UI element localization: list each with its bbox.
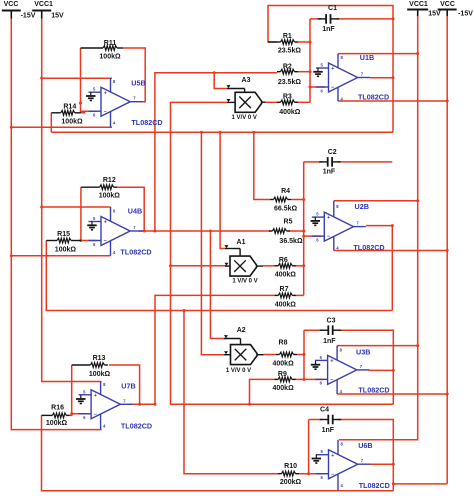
svg-text:36.5kΩ: 36.5kΩ bbox=[279, 238, 303, 245]
svg-text:6: 6 bbox=[321, 475, 324, 480]
capacitor C2 bbox=[319, 149, 340, 176]
svg-text:8: 8 bbox=[113, 209, 116, 214]
svg-text:7: 7 bbox=[360, 364, 363, 369]
wire R7 right lead bbox=[295, 294, 304, 296]
svg-text:8: 8 bbox=[341, 55, 344, 60]
wire R4 left lead from U1B line bbox=[254, 132, 270, 199]
op-amp U4B bbox=[89, 206, 152, 256]
wire U7B output bbox=[129, 403, 156, 405]
svg-text:TL082CD: TL082CD bbox=[131, 118, 162, 127]
svg-text:100kΩ: 100kΩ bbox=[61, 119, 83, 126]
svg-text:R13: R13 bbox=[93, 355, 106, 362]
resistor R2 bbox=[277, 64, 301, 87]
resistor R1 bbox=[268, 33, 301, 54]
resistor R7 bbox=[275, 286, 297, 309]
svg-text:R5: R5 bbox=[284, 219, 293, 226]
power symbol VCC1 (15V) top-left bbox=[32, 1, 64, 19]
wire R6 line from U3B rail to A1 bbox=[171, 265, 227, 267]
wire A2 y-input from U4B output bbox=[210, 231, 226, 339]
resistor R15 bbox=[46, 231, 81, 253]
svg-text:R10: R10 bbox=[284, 463, 297, 470]
svg-text:C3: C3 bbox=[327, 317, 336, 324]
resistor R10 bbox=[278, 463, 301, 486]
capacitor C3 bbox=[320, 317, 341, 345]
wire A2 x-input from U1B line bbox=[201, 132, 226, 354]
svg-text:400kΩ: 400kΩ bbox=[279, 109, 301, 116]
svg-text:U4B: U4B bbox=[128, 206, 142, 215]
svg-text:TL082CD: TL082CD bbox=[120, 248, 151, 257]
svg-text:−: − bbox=[331, 472, 335, 478]
wire C3 row left bbox=[304, 329, 323, 331]
svg-text:5: 5 bbox=[316, 212, 319, 217]
svg-text:400kΩ: 400kΩ bbox=[275, 272, 297, 279]
svg-text:R2: R2 bbox=[283, 64, 292, 71]
svg-text:R9: R9 bbox=[278, 371, 287, 378]
svg-text:1nF: 1nF bbox=[323, 338, 336, 345]
svg-text:8: 8 bbox=[113, 79, 116, 84]
svg-text:100kΩ: 100kΩ bbox=[99, 53, 121, 60]
svg-text:4: 4 bbox=[113, 121, 116, 126]
svg-text:400kΩ: 400kΩ bbox=[275, 302, 297, 309]
wire R14 right lead jog bbox=[81, 111, 85, 113]
svg-text:TL082CD: TL082CD bbox=[358, 386, 389, 395]
wire U1B output distribution line (horizontal) bbox=[51, 131, 393, 134]
svg-text:VCC1: VCC1 bbox=[34, 1, 53, 8]
svg-text:15V: 15V bbox=[51, 12, 64, 19]
svg-text:U3B: U3B bbox=[356, 348, 370, 357]
op-amp U1B bbox=[316, 53, 389, 101]
multiplier A2 input stubs and output lead bbox=[224, 335, 264, 355]
wire U3B input bus bbox=[303, 330, 306, 381]
svg-text:R8: R8 bbox=[279, 340, 288, 347]
svg-text:6: 6 bbox=[316, 237, 319, 242]
wire R11 left lead to U5B inverting input bbox=[79, 48, 97, 111]
wire R6 right lead bbox=[295, 265, 304, 267]
svg-text:1 V/V 0 V: 1 V/V 0 V bbox=[226, 368, 251, 374]
svg-text:+: + bbox=[331, 453, 335, 459]
svg-text:6: 6 bbox=[93, 242, 96, 247]
wire U6B output bbox=[370, 463, 393, 465]
power symbol VCC1 (15V) top-right bbox=[407, 1, 441, 18]
svg-text:A3: A3 bbox=[242, 77, 251, 84]
wire C1 left lead bbox=[310, 18, 322, 20]
wire R7 line to U7B output bbox=[154, 295, 277, 405]
wire C4 right lead down to U6B output bbox=[337, 420, 393, 465]
wire R3 right lead to bus bbox=[298, 101, 310, 103]
wire C4 row left bbox=[309, 419, 323, 421]
svg-text:8: 8 bbox=[340, 347, 343, 352]
resistor R3 bbox=[277, 94, 301, 116]
wire C3 right lead down to U3B output and A-rail bbox=[337, 330, 394, 404]
svg-text:1nF: 1nF bbox=[323, 169, 336, 176]
ground at U4B non-inverting input bbox=[87, 222, 96, 230]
capacitor C1 bbox=[318, 5, 339, 33]
wire R1 right lead to bus bbox=[298, 41, 310, 43]
wire U3B pin4 to -15V rail bbox=[337, 393, 449, 396]
resistor R5 bbox=[269, 219, 303, 246]
svg-text:6: 6 bbox=[93, 113, 96, 118]
svg-text:R16: R16 bbox=[51, 405, 64, 412]
wire C2 row left bbox=[304, 161, 322, 163]
resistor R4 bbox=[270, 188, 298, 213]
svg-text:7: 7 bbox=[133, 225, 136, 230]
svg-text:23.5kΩ: 23.5kΩ bbox=[278, 48, 302, 55]
svg-text:−: − bbox=[330, 378, 334, 384]
wire VCC1 15V right rail with U6B pin8 branch bbox=[339, 16, 418, 440]
svg-text:5: 5 bbox=[321, 449, 324, 454]
svg-text:A2: A2 bbox=[237, 327, 246, 334]
svg-text:C4: C4 bbox=[320, 407, 329, 414]
wire R13 left lead to U7B inverting input bbox=[70, 365, 87, 415]
wire U6B output down to bottom wire bbox=[392, 463, 395, 491]
svg-text:+: + bbox=[94, 393, 98, 399]
svg-text:TL082CD: TL082CD bbox=[358, 93, 389, 102]
op-amp U3B bbox=[315, 346, 389, 395]
svg-text:6: 6 bbox=[321, 88, 324, 93]
wire U5B pin8 to 15V rail bbox=[40, 77, 112, 80]
svg-text:15V: 15V bbox=[428, 11, 441, 18]
svg-text:TL082CD: TL082CD bbox=[353, 243, 384, 252]
svg-text:100kΩ: 100kΩ bbox=[46, 420, 68, 427]
svg-text:U2B: U2B bbox=[355, 202, 369, 211]
wire U2B output down to R15 line bbox=[391, 224, 394, 310]
wire U3B pin8 to 15V rail bbox=[337, 344, 419, 347]
wire U1B input bus bbox=[309, 19, 312, 102]
wire A1 output to R6 bbox=[263, 265, 276, 267]
svg-text:C1: C1 bbox=[328, 5, 337, 12]
svg-text:8: 8 bbox=[336, 204, 339, 209]
svg-text:R12: R12 bbox=[103, 177, 116, 184]
svg-text:+: + bbox=[327, 215, 331, 221]
wire U1B pin8 to 15V rail bbox=[338, 52, 419, 55]
svg-text:VCC: VCC bbox=[4, 1, 19, 8]
svg-text:R1: R1 bbox=[283, 33, 292, 40]
resistor R8 bbox=[273, 340, 297, 368]
wire U2B pin4 to -15V rail bbox=[334, 249, 449, 252]
wire R12 right lead to U4B output bbox=[117, 187, 146, 232]
resistor R13 bbox=[72, 355, 111, 378]
wire A3 x-input from U3B output rail bbox=[169, 102, 393, 404]
resistor R6 bbox=[275, 257, 297, 279]
wire U5B pin4 to -15V rail bbox=[10, 126, 112, 129]
svg-text:C2: C2 bbox=[328, 149, 337, 156]
wire U4B pin4 to -15V rail bbox=[10, 254, 111, 257]
svg-text:U5B: U5B bbox=[131, 78, 145, 87]
multiplier A3 bbox=[232, 77, 262, 121]
svg-text:TL082CD: TL082CD bbox=[121, 421, 152, 430]
svg-text:-15V: -15V bbox=[458, 11, 473, 18]
svg-text:200kΩ: 200kΩ bbox=[280, 479, 302, 486]
svg-text:7: 7 bbox=[133, 96, 136, 101]
wire U4B output line to R5 and U2B bus bbox=[139, 230, 305, 233]
svg-text:6: 6 bbox=[83, 415, 86, 420]
svg-text:VCC: VCC bbox=[440, 1, 455, 8]
op-amp U2B bbox=[312, 201, 385, 252]
svg-text:−: − bbox=[94, 412, 98, 418]
svg-text:R14: R14 bbox=[63, 104, 76, 111]
op-amp U7B bbox=[79, 381, 152, 430]
svg-text:4: 4 bbox=[103, 423, 106, 428]
wire R11 right lead to U5B output bbox=[123, 48, 145, 102]
wire R15 left lead down to U2B output line bbox=[46, 241, 392, 313]
resistor R12 bbox=[81, 177, 120, 200]
wire C1 right lead to feedback loop bbox=[336, 17, 394, 20]
svg-text:7: 7 bbox=[357, 221, 360, 226]
capacitor C4 bbox=[320, 407, 341, 434]
wire U1B pin4 to -15V rail bbox=[338, 100, 449, 103]
wire U2B inverting input bbox=[304, 235, 321, 237]
svg-text:-15V: -15V bbox=[21, 12, 36, 19]
svg-text:1 V/V 0 V: 1 V/V 0 V bbox=[232, 115, 257, 121]
wire R14 left lead down to node bbox=[50, 113, 52, 133]
svg-text:−: − bbox=[104, 239, 108, 245]
multiplier A2 bbox=[226, 327, 257, 374]
op-amp U5B bbox=[89, 78, 163, 127]
svg-text:U6B: U6B bbox=[358, 441, 372, 450]
wire U2B pin8 to 15V rail bbox=[334, 199, 419, 202]
wire C4 left lead down to U6B inverting input bbox=[307, 420, 310, 476]
wire VCC1 15V left rail with U7B pin8 branch bbox=[42, 19, 102, 382]
svg-text:4: 4 bbox=[340, 389, 343, 394]
svg-text:66.5kΩ: 66.5kΩ bbox=[274, 205, 298, 212]
wire R2 right lead to bus bbox=[298, 71, 310, 73]
wire A3 output to R3 bbox=[266, 101, 278, 103]
wire R10 line from R15 feedback node bbox=[184, 311, 278, 474]
wire U1B top feedback loop bbox=[268, 6, 395, 133]
ground at U3B non-inverting input bbox=[311, 361, 320, 369]
svg-text:8: 8 bbox=[341, 442, 344, 447]
wire C2 right lead down to U2B output bbox=[338, 161, 393, 163]
ground at U6B non-inverting input bbox=[312, 455, 321, 463]
svg-text:5: 5 bbox=[320, 355, 323, 360]
wire VCC -15V left rail with U7B pin4 branch bbox=[11, 19, 101, 430]
svg-text:8: 8 bbox=[103, 382, 106, 387]
wire U6B output corner to -15V rail bbox=[393, 483, 447, 485]
wire U3B output bbox=[369, 369, 394, 371]
wire U4B output up to R2 line bbox=[153, 73, 277, 233]
resistor R16 bbox=[42, 405, 70, 428]
power symbol VCC (-15V) top-right bbox=[438, 1, 474, 18]
svg-text:5: 5 bbox=[93, 87, 96, 92]
ground at U1B non-inverting input bbox=[313, 68, 322, 76]
wire R8 right lead bbox=[297, 354, 304, 356]
svg-text:+: + bbox=[104, 90, 108, 96]
wire A2 output to R8 bbox=[264, 354, 277, 356]
op-amp U6B bbox=[316, 440, 390, 491]
svg-text:100kΩ: 100kΩ bbox=[89, 371, 111, 378]
wire R9 feedback from U3B output bbox=[248, 379, 276, 405]
wire R16 right lead jog bbox=[70, 414, 72, 416]
wire A1 y-input from U1B line bbox=[220, 132, 225, 248]
svg-text:VCC1: VCC1 bbox=[409, 1, 428, 8]
wire R10 right lead to U6B inverting input bbox=[299, 473, 325, 475]
wire R12 left lead to U4B inverting input bbox=[79, 187, 97, 242]
svg-text:7: 7 bbox=[361, 458, 364, 463]
svg-text:U7B: U7B bbox=[121, 381, 135, 390]
svg-text:100kΩ: 100kΩ bbox=[55, 247, 77, 254]
wire VCC -15V right rail bbox=[446, 16, 448, 484]
svg-text:−: − bbox=[104, 109, 108, 115]
svg-text:+: + bbox=[330, 359, 334, 365]
svg-text:+: + bbox=[331, 66, 335, 72]
wire U1B inverting input bbox=[310, 86, 325, 88]
svg-text:−: − bbox=[327, 234, 331, 240]
wire U1B output bbox=[370, 77, 393, 79]
ground at U7B non-inverting input bbox=[76, 395, 85, 403]
wire U4B pin8 to 15V rail bbox=[40, 206, 110, 209]
svg-text:R7: R7 bbox=[280, 286, 289, 293]
svg-text:7: 7 bbox=[361, 72, 364, 77]
svg-text:4: 4 bbox=[113, 250, 116, 255]
wire U2B input bus bbox=[302, 162, 305, 296]
svg-text:R11: R11 bbox=[104, 40, 117, 47]
svg-text:100kΩ: 100kΩ bbox=[99, 193, 121, 200]
wire R4 right lead bbox=[291, 199, 304, 201]
svg-text:U1B: U1B bbox=[360, 53, 374, 62]
svg-text:5: 5 bbox=[321, 63, 324, 68]
svg-text:A1: A1 bbox=[237, 239, 246, 246]
ground at U5B non-inverting input bbox=[86, 92, 95, 100]
svg-text:+: + bbox=[104, 220, 108, 226]
wire U2B output bbox=[366, 225, 392, 227]
svg-text:TL082CD: TL082CD bbox=[359, 481, 390, 490]
svg-text:4: 4 bbox=[341, 483, 344, 488]
multiplier A1 bbox=[230, 239, 258, 284]
svg-text:−: − bbox=[331, 85, 335, 91]
svg-text:R6: R6 bbox=[279, 257, 288, 264]
wire R13 right lead to U7B output bbox=[109, 365, 141, 406]
svg-text:1nF: 1nF bbox=[322, 427, 335, 434]
svg-text:5: 5 bbox=[83, 389, 86, 394]
svg-text:400kΩ: 400kΩ bbox=[273, 385, 295, 392]
svg-text:6: 6 bbox=[320, 381, 323, 386]
ground at U2B non-inverting input bbox=[311, 217, 320, 225]
svg-text:R4: R4 bbox=[281, 188, 290, 195]
resistor R11 bbox=[81, 40, 124, 60]
svg-text:5: 5 bbox=[93, 216, 96, 221]
svg-text:7: 7 bbox=[123, 398, 126, 403]
svg-text:400kΩ: 400kΩ bbox=[273, 361, 295, 368]
svg-text:R15: R15 bbox=[57, 231, 70, 238]
svg-text:1nF: 1nF bbox=[322, 26, 335, 33]
resistor R14 bbox=[51, 104, 83, 126]
wire R16 left lead down to bottom feedback wire bbox=[42, 415, 394, 490]
wire A3 y-input drop bbox=[213, 71, 227, 88]
svg-text:23.5kΩ: 23.5kΩ bbox=[278, 79, 302, 86]
multiplier A1 input stubs and output lead bbox=[225, 245, 264, 266]
power symbol VCC (-15V) top-left bbox=[2, 1, 36, 19]
multiplier A3 input stubs and output lead bbox=[227, 85, 266, 102]
resistor R9 bbox=[273, 371, 296, 392]
wire R9 right lead to U3B inverting input bbox=[295, 378, 325, 380]
svg-text:R3: R3 bbox=[283, 94, 292, 101]
svg-text:1 V/V 0 V: 1 V/V 0 V bbox=[232, 279, 257, 285]
